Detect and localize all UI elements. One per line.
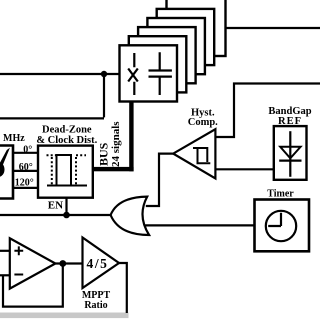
converter cell box 5 [157,9,215,65]
minus sign [14,274,23,276]
svg-text:4/5: 4/5 [86,256,108,271]
svg-text:0°: 0° [23,144,32,155]
svg-text:Ratio: Ratio [84,300,107,311]
converter cell box 2 [129,36,187,92]
gray band (cropped block edge at bottom) [0,313,129,319]
converter cell stack: box 6 (back) [167,0,226,56]
waveform dotted left pulse [47,154,57,156]
wire OR gate output rail [0,214,111,216]
svg-text:Timer: Timer [267,189,294,200]
wire phase 120 [13,187,39,189]
timer box U5 [255,200,310,252]
waveform baseline [47,185,87,187]
bus thick horizontal segment [93,167,134,171]
wire divider output down [119,263,127,313]
oscillator icon (needle + blob, cut) [0,148,10,165]
hysteretic comparator U3 [173,129,215,178]
hysteresis symbol inside U3 [193,148,210,163]
wire comparator output to divider [55,262,82,264]
svg-text:120°: 120° [15,177,34,188]
svg-text:BUS: BUS [97,142,111,166]
svg-text:REF: REF [278,116,302,127]
wire hysteretic comparator input 1 (from sense rail) [215,84,320,138]
dead-zone & clock distribution box U2 [38,146,93,198]
oscillator box U1 (cut at left edge) [0,146,13,199]
wire branch down from node to left rail [0,74,104,118]
wire VDD rail to converter stack [0,73,120,75]
node output junction [59,260,66,267]
waveform dotted right pulse [76,154,86,156]
svg-text:& Clock Dist.: & Clock Dist. [36,135,97,146]
wire comparator output down to OR gate input [146,154,173,206]
clock icon inside timer [266,211,296,241]
converter cell box 3 [138,27,196,83]
zener diode D1 [289,131,291,177]
converter cell box 1 (front) [120,45,178,101]
EN wire from OR output rail up into dead-zone box [65,197,67,215]
node junction on VDD rail [101,71,107,77]
wire phase 0 [13,152,39,154]
OR gate U6 (pointing left) [111,197,150,235]
node EN junction [63,212,70,219]
flying capacitor C1 inside front cell [159,52,161,95]
waveform solid pulse [57,155,72,186]
wire comparator input 2 to bandgap [215,168,273,170]
wire top output rail from back cell [225,27,320,29]
converter cell box 4 [147,18,205,74]
wire timer output to OR gate input [145,224,254,226]
svg-text:Dead-Zone: Dead-Zone [42,125,92,136]
svg-text:EN: EN [48,200,63,212]
svg-text:1 MHz: 1 MHz [0,133,25,144]
bus thick vertical segment [129,101,133,171]
comparator U7 (+/-) [0,250,10,252]
divider 4/5 U8 [83,238,120,289]
plus sign [14,246,23,255]
bandgap reference box U4 [274,126,307,180]
switch S1 inside front cell [133,53,135,95]
svg-text:Comp.: Comp. [188,117,218,128]
feedback loop wire [3,264,63,307]
svg-text:24 signals: 24 signals [110,121,122,167]
svg-text:60°: 60° [19,162,33,173]
wire phase 60 [13,170,39,172]
